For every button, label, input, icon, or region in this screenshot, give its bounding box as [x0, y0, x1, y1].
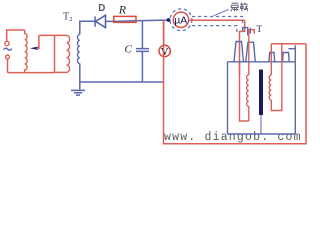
wire: wiper to T2 primary [39, 34, 67, 36]
svg-text:µA: µA [174, 16, 187, 27]
core bar [259, 70, 263, 116]
wire: blue bottom rail [80, 81, 164, 83]
transformer T2 secondary winding [78, 35, 80, 64]
voltmeter V circle [159, 45, 170, 56]
wire: capacitor branch lower [141, 52, 143, 82]
wire: uA to corridor [189, 19, 245, 21]
LV rail [271, 43, 306, 45]
wire: secondary bottom lead [79, 64, 81, 90]
tank left [227, 62, 229, 134]
LV bushing bump 2 [283, 53, 290, 62]
wiper arrow [30, 47, 38, 50]
wire: HV lead jog into bushing 1 [240, 20, 245, 74]
svg-text:www. diangob. com: www. diangob. com [164, 131, 302, 144]
svg-text:D: D [98, 3, 105, 14]
shield dashed line bottom [192, 26, 237, 33]
label pingbi (shield) [231, 3, 248, 12]
resistor R body [114, 16, 136, 22]
svg-text:C: C [125, 44, 133, 56]
wire: return box [164, 20, 307, 144]
svg-text:R: R [118, 3, 127, 17]
transformer T2 primary winding [67, 35, 70, 72]
wire: diode to junction [106, 20, 169, 21]
terminal circle bottom [6, 55, 10, 59]
LV bushing bump 1 [269, 53, 275, 62]
shield cap solid [243, 28, 251, 36]
bushing B2 [246, 42, 256, 62]
wire: wiper tail [37, 35, 39, 48]
wire: HV winding top stub [249, 30, 254, 43]
tank top [228, 61, 296, 63]
HV winding coil [247, 42, 249, 121]
autotransformer winding [25, 30, 27, 73]
microammeter uA circle [173, 12, 188, 27]
AC tilde symbol [3, 48, 11, 50]
wire: AC source bottom lead [7, 59, 9, 73]
leader line for shield label [214, 10, 229, 16]
wire: capacitor branch upper [141, 21, 143, 48]
ground [71, 90, 85, 95]
wire: bottom rail left circuit [8, 72, 55, 74]
LV winding coil [269, 75, 271, 100]
terminal circle top [5, 41, 9, 45]
node junction dot [167, 18, 171, 22]
diode D triangle [96, 15, 106, 27]
wire: secondary top lead to bus [80, 21, 95, 34]
shield dashed line top [192, 17, 243, 25]
LV winding left leg [270, 44, 272, 75]
tank bottom [228, 133, 296, 135]
diode D cathode bar [94, 16, 96, 26]
svg-text:V: V [161, 47, 169, 58]
tank right [294, 45, 296, 134]
shield dashed circle around uA [170, 9, 192, 31]
wire: T2 primary left side loop [55, 35, 67, 72]
core ground lead [260, 115, 262, 134]
LV winding bottom U [271, 44, 282, 111]
capacitor C plates [136, 49, 149, 52]
wire: HV winding left leg down [240, 62, 249, 121]
wire: AC source top lead [7, 30, 25, 41]
wire: voltmeter branch upper [163, 20, 165, 45]
tank right notch [288, 48, 295, 50]
bushing B1 [234, 42, 244, 62]
svg-text:T: T [257, 24, 263, 34]
